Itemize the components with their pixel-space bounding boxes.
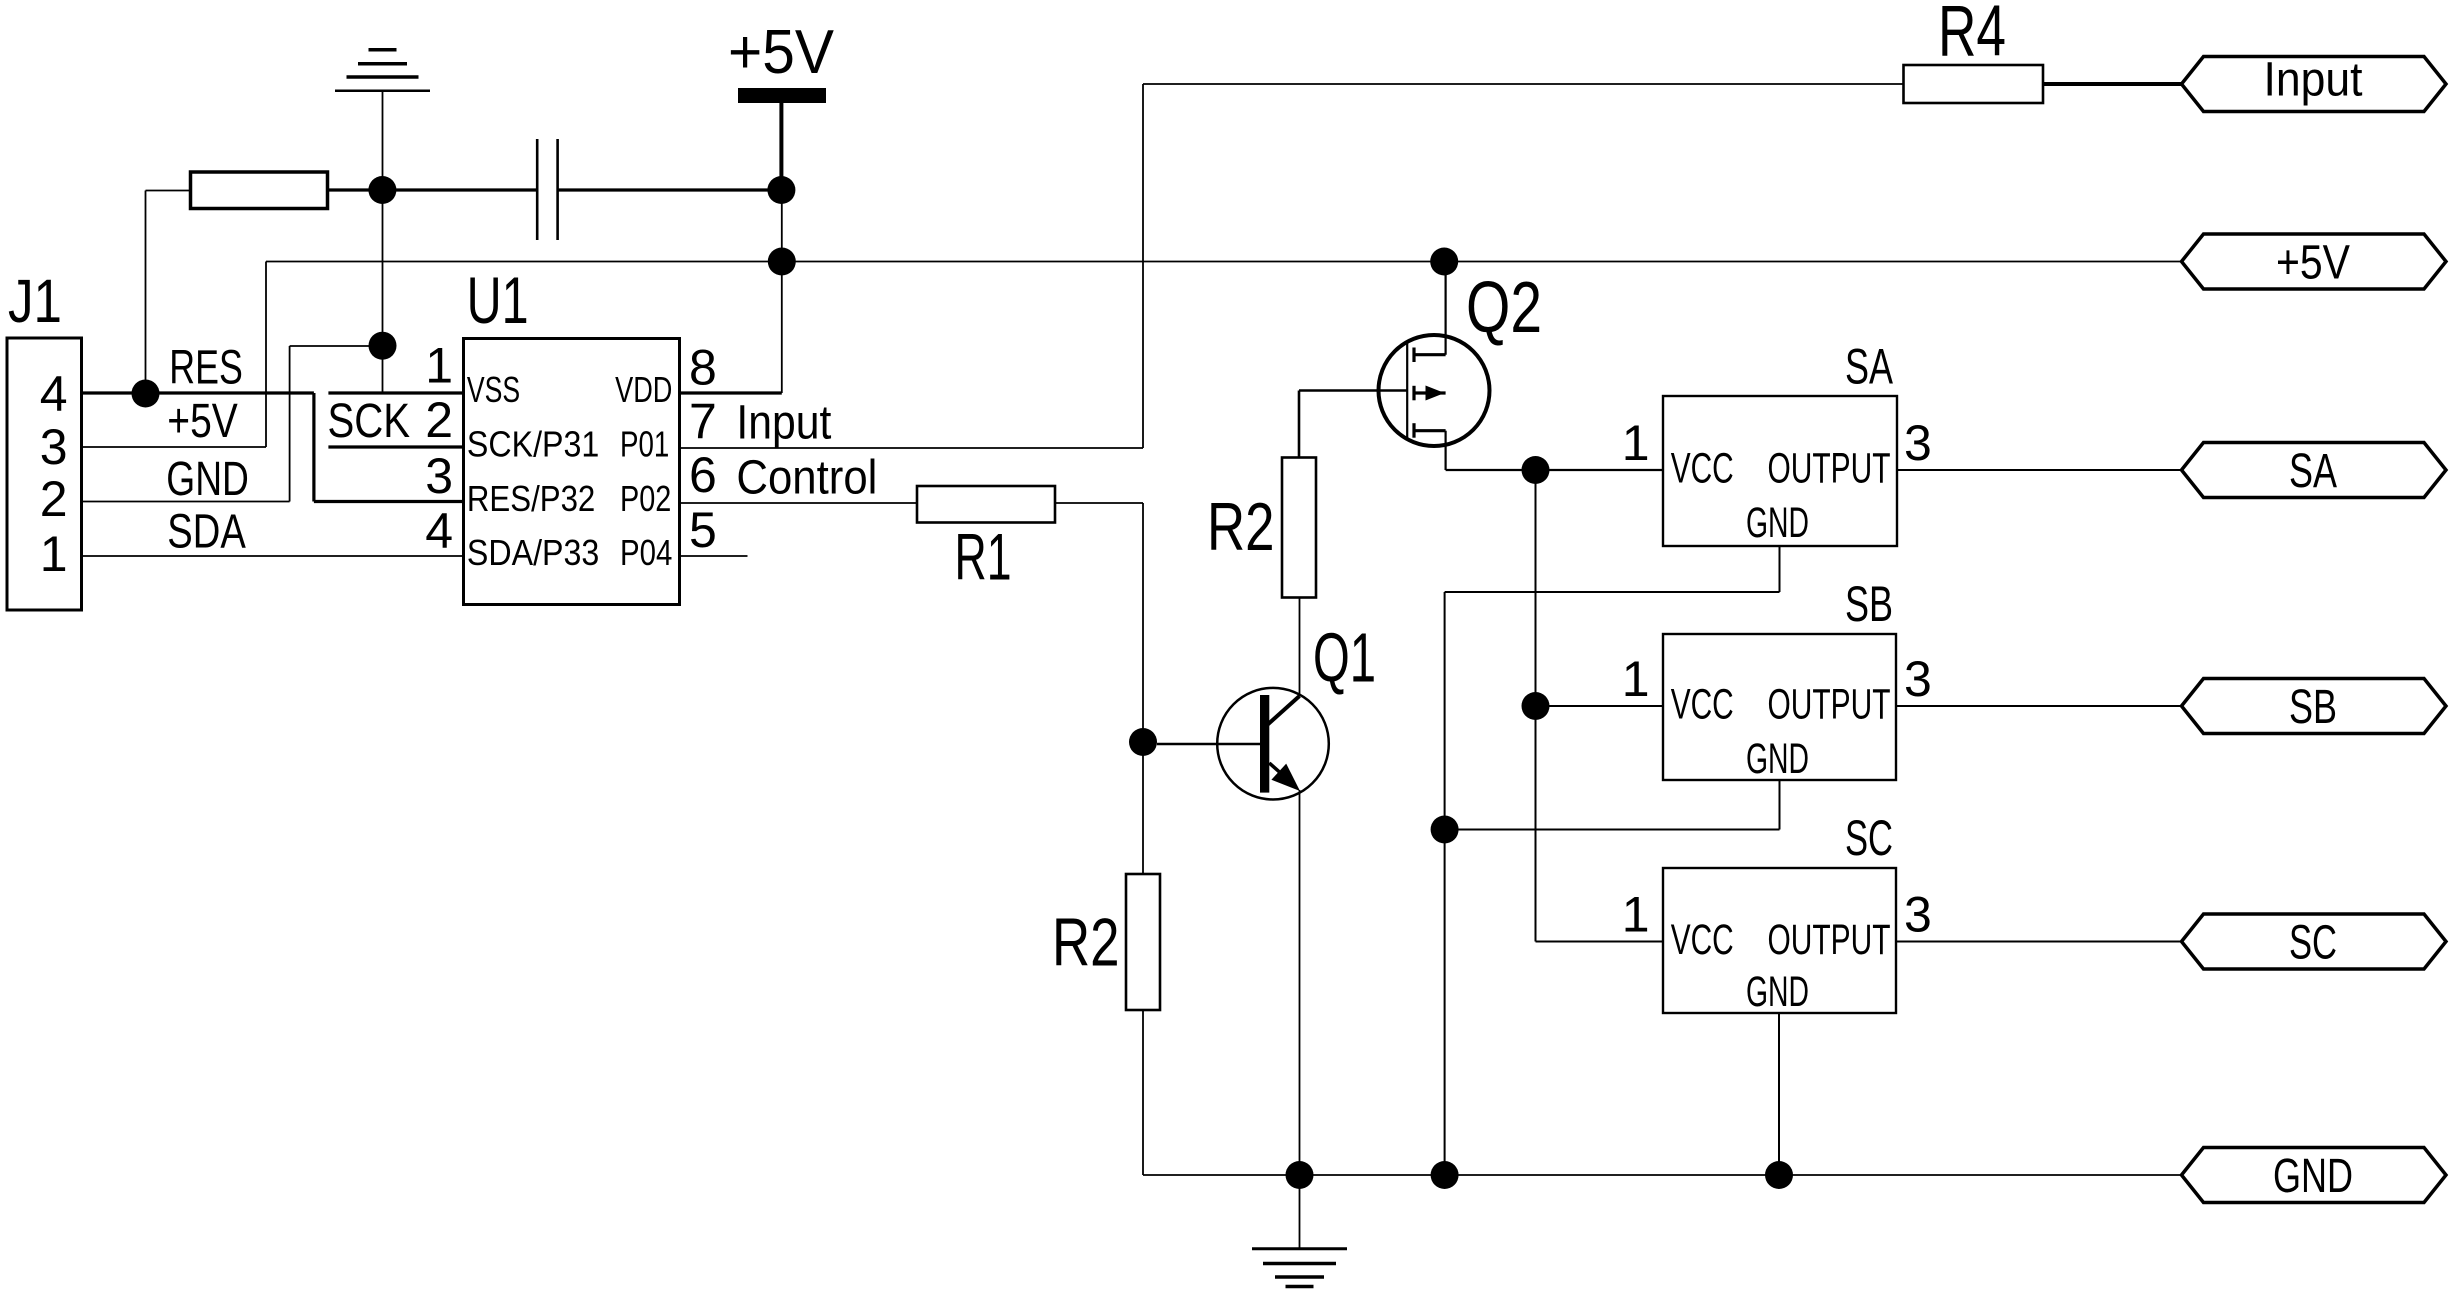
- svg-text:SCK: SCK: [328, 395, 411, 448]
- svg-text:OUTPUT: OUTPUT: [1768, 680, 1891, 728]
- svg-text:3: 3: [1904, 887, 1932, 943]
- svg-text:1: 1: [425, 337, 453, 393]
- svg-text:R2: R2: [1207, 489, 1275, 565]
- svg-text:GND: GND: [166, 453, 249, 506]
- svg-text:GND: GND: [1746, 499, 1809, 547]
- svg-text:1: 1: [1622, 887, 1650, 943]
- svg-text:Input: Input: [2264, 54, 2363, 107]
- svg-text:SDA: SDA: [167, 506, 246, 559]
- svg-text:SC: SC: [2289, 917, 2337, 970]
- svg-text:U1: U1: [467, 263, 529, 337]
- svg-text:+5V: +5V: [167, 395, 238, 448]
- svg-text:VCC: VCC: [1671, 916, 1734, 964]
- svg-text:4: 4: [425, 503, 453, 559]
- svg-text:4: 4: [40, 366, 68, 422]
- svg-text:GND: GND: [1746, 735, 1809, 783]
- svg-text:GND: GND: [2273, 1150, 2353, 1203]
- svg-text:P04: P04: [620, 532, 672, 573]
- svg-text:1: 1: [1622, 415, 1650, 471]
- svg-text:+5V: +5V: [728, 18, 835, 87]
- svg-text:7: 7: [689, 393, 717, 449]
- svg-text:8: 8: [689, 340, 717, 396]
- svg-text:SB: SB: [1845, 576, 1893, 632]
- svg-text:P02: P02: [620, 478, 671, 519]
- svg-text:VSS: VSS: [467, 369, 520, 410]
- svg-text:SDA/P33: SDA/P33: [467, 532, 599, 573]
- svg-text:R2: R2: [1052, 905, 1120, 981]
- svg-text:Control: Control: [736, 452, 877, 505]
- svg-text:Q2: Q2: [1466, 268, 1542, 348]
- svg-text:R4: R4: [1938, 0, 2006, 72]
- svg-text:3: 3: [425, 448, 453, 504]
- svg-text:OUTPUT: OUTPUT: [1768, 916, 1891, 964]
- svg-text:SCK/P31: SCK/P31: [467, 424, 599, 465]
- svg-text:+5V: +5V: [2276, 237, 2350, 290]
- svg-text:2: 2: [425, 392, 453, 448]
- svg-text:GND: GND: [1746, 968, 1809, 1016]
- svg-text:P01: P01: [620, 424, 669, 465]
- svg-text:SC: SC: [1845, 810, 1893, 866]
- svg-text:SB: SB: [2289, 681, 2337, 734]
- svg-text:Input: Input: [736, 396, 831, 449]
- svg-text:3: 3: [1904, 415, 1932, 471]
- svg-text:OUTPUT: OUTPUT: [1768, 444, 1891, 492]
- svg-text:5: 5: [689, 502, 717, 558]
- svg-text:3: 3: [1904, 651, 1932, 707]
- svg-text:1: 1: [1622, 651, 1650, 707]
- svg-text:3: 3: [40, 419, 68, 475]
- svg-text:1: 1: [40, 526, 68, 582]
- svg-text:Q1: Q1: [1313, 619, 1376, 697]
- svg-text:2: 2: [40, 471, 68, 527]
- svg-text:VCC: VCC: [1671, 680, 1734, 728]
- svg-text:RES: RES: [169, 341, 243, 394]
- svg-text:SA: SA: [1845, 339, 1893, 395]
- svg-text:J1: J1: [8, 267, 62, 335]
- svg-text:SA: SA: [2289, 445, 2337, 498]
- svg-text:R1: R1: [955, 520, 1012, 594]
- svg-text:VDD: VDD: [615, 369, 672, 410]
- svg-text:6: 6: [689, 447, 717, 503]
- svg-text:RES/P32: RES/P32: [467, 478, 595, 519]
- svg-text:VCC: VCC: [1671, 444, 1734, 492]
